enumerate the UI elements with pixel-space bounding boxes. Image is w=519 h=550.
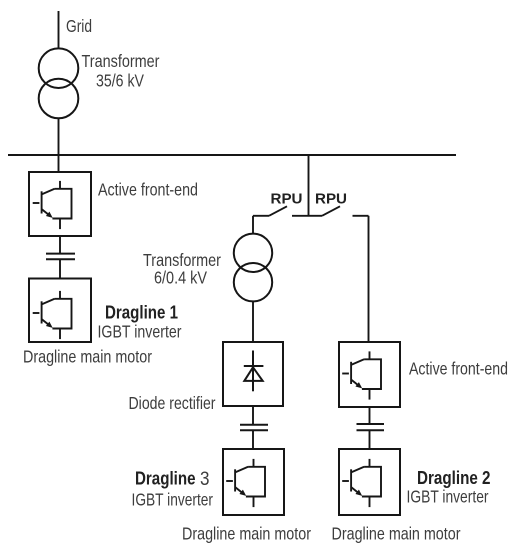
- wire transformer T1 to bus: [58, 118, 60, 155]
- svg-text:Dragline main motor: Dragline main motor: [332, 524, 461, 544]
- svg-text:RPU: RPU: [315, 190, 347, 207]
- wire RPU left to transformer T2: [252, 216, 254, 234]
- wire DC link capacitor 2 to inverter 2: [369, 431, 371, 449]
- wire active front-end 2 to DC link capacitor 2: [369, 407, 371, 423]
- wire diode rectifier to DC link capacitor 3: [252, 406, 254, 425]
- capacitor DC link 1: [46, 254, 75, 260]
- label Dragline 1: [105, 302, 178, 323]
- svg-text:IGBT inverter: IGBT inverter: [132, 490, 214, 510]
- wire DC link capacitor to inverter 1: [59, 260, 61, 279]
- wire 6 kV bus: [8, 154, 456, 156]
- node Grid label: [66, 16, 92, 36]
- label IGBT inverter 3: [132, 490, 214, 510]
- diode symbol: [244, 351, 264, 392]
- label Dragline main motor 3: [182, 524, 311, 544]
- converter box diode rectifier: [223, 342, 283, 406]
- svg-text:IGBT inverter: IGBT inverter: [407, 487, 489, 507]
- svg-text:Grid: Grid: [66, 16, 92, 36]
- converter box active front-end 1: [29, 172, 91, 236]
- svg-text:Dragline main motor: Dragline main motor: [23, 347, 152, 367]
- switch RPU right: [309, 206, 369, 216]
- label Dragline 2: [417, 467, 491, 488]
- svg-text:Active front-end: Active front-end: [98, 180, 198, 200]
- transistor IGBT active front-end 1: [33, 181, 72, 229]
- svg-text:Diode rectifier: Diode rectifier: [129, 393, 216, 413]
- svg-text:3: 3: [200, 468, 210, 490]
- label Dragline 3: [135, 468, 210, 490]
- wire bus to RPU switches: [308, 155, 310, 216]
- label IGBT inverter 1: [98, 322, 182, 342]
- label Diode rectifier: [129, 393, 216, 413]
- transistor IGBT active front-end 2: [342, 351, 381, 399]
- svg-text:6/0.4 kV: 6/0.4 kV: [154, 268, 207, 288]
- svg-text:Dragline main motor: Dragline main motor: [182, 524, 311, 544]
- capacitor DC link 2: [357, 424, 385, 430]
- converter box IGBT inverter Dragline 1: [29, 279, 91, 343]
- converter box active front-end 2: [339, 342, 400, 407]
- svg-text:Active front-end: Active front-end: [409, 358, 508, 378]
- transistor IGBT inverter 3: [226, 459, 265, 507]
- label Dragline main motor 1: [23, 347, 152, 367]
- label Active front-end left: [98, 180, 198, 200]
- svg-text:Transformer: Transformer: [82, 51, 160, 71]
- label RPU right: [315, 190, 347, 207]
- svg-text:RPU: RPU: [271, 190, 303, 207]
- label RPU left: [271, 190, 303, 207]
- svg-text:IGBT inverter: IGBT inverter: [98, 322, 182, 342]
- transformer T1 35/6 kV: [39, 48, 79, 118]
- wire bus to active front-end 1: [58, 155, 60, 172]
- label Dragline main motor 2: [332, 524, 461, 544]
- label transformer 35/6 kV: [82, 51, 160, 91]
- wire RPU right to active front-end 2: [368, 216, 370, 342]
- capacitor DC link 3: [240, 425, 268, 430]
- label Active front-end right: [409, 358, 508, 378]
- converter box IGBT inverter Dragline 3: [223, 449, 284, 515]
- svg-text:Dragline 1: Dragline 1: [105, 302, 178, 323]
- label IGBT inverter 2: [407, 487, 489, 507]
- svg-text:Dragline 2: Dragline 2: [417, 467, 491, 488]
- wire grid feeder: [58, 11, 60, 48]
- transistor IGBT inverter 1: [33, 291, 72, 339]
- wire transformer T2 to diode rectifier: [252, 301, 254, 342]
- label transformer 6/0.4 kV: [143, 250, 221, 288]
- transformer T2 6/0.4 kV: [234, 234, 272, 302]
- transistor IGBT inverter 2: [342, 459, 381, 507]
- svg-text:35/6 kV: 35/6 kV: [96, 71, 144, 91]
- converter box IGBT inverter Dragline 2: [339, 449, 400, 515]
- switch RPU left: [253, 206, 309, 216]
- wire active front-end 1 to DC link capacitor: [59, 236, 61, 253]
- wire DC link capacitor 3 to inverter 3: [252, 431, 254, 449]
- svg-text:Dragline: Dragline: [135, 468, 196, 489]
